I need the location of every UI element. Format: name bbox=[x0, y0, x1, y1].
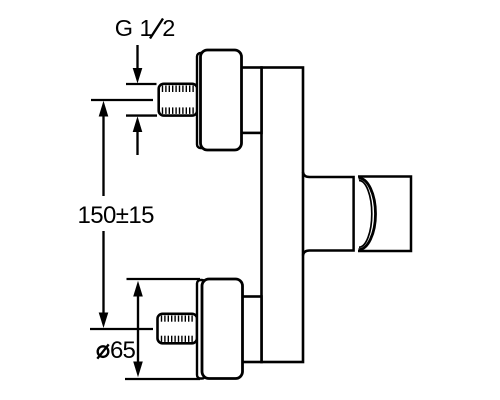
svg-text:2: 2 bbox=[162, 15, 175, 41]
handle dome outer arc bbox=[359, 178, 376, 250]
dimension arrow down to thread top bbox=[133, 45, 143, 84]
top thread hatching bbox=[163, 86, 194, 114]
dimension arrow up to thread bottom bbox=[133, 116, 143, 155]
bottom union flange bbox=[197, 280, 206, 379]
svg-text:G: G bbox=[115, 15, 133, 41]
handle sleeve (cartridge housing) bbox=[303, 172, 354, 256]
handle dome inner arc bbox=[359, 181, 372, 248]
top union body bbox=[201, 50, 242, 150]
extension line fitting top (ø65) bbox=[127, 278, 201, 280]
svg-text:150±15: 150±15 bbox=[78, 202, 155, 229]
bottom inlet connector bbox=[241, 297, 262, 363]
dimension 150±15 vertical line upper segment with up arrow bbox=[99, 101, 109, 196]
bottom union nut thread bbox=[158, 314, 198, 344]
svg-text:65: 65 bbox=[110, 337, 136, 364]
bottom thread hatching bbox=[162, 316, 193, 342]
extension line thread bottom bbox=[126, 114, 157, 116]
main valve body bbox=[262, 68, 304, 363]
dimension 150±15 vertical line lower segment with down arrow bbox=[99, 231, 109, 328]
centerline bottom fitting bbox=[90, 328, 153, 330]
handle knob end cap bbox=[358, 177, 411, 252]
top inlet connector bbox=[241, 68, 262, 133]
top union nut thread bbox=[159, 84, 198, 116]
label ø65 bbox=[97, 337, 135, 364]
dimension ø65 arrows and shaft bbox=[133, 281, 143, 377]
extension line thread top bbox=[126, 83, 157, 85]
top union flange bbox=[197, 53, 206, 148]
extension line fitting bottom (ø65) bbox=[125, 378, 200, 380]
bottom union body bbox=[202, 279, 243, 379]
centerline top fitting bbox=[91, 99, 153, 101]
dimension: G 1/2 label bbox=[115, 15, 176, 41]
